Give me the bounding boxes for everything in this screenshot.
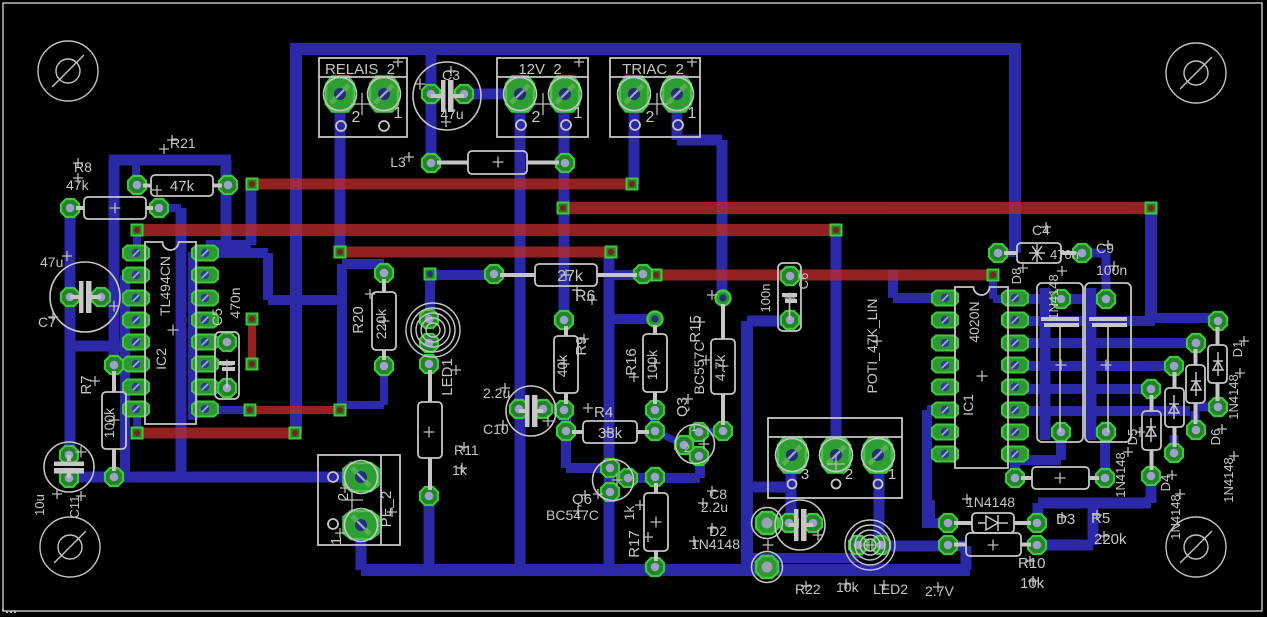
wire red band 3: [137, 224, 836, 236]
wire: [464, 89, 520, 100]
pad IC1 pin 9: [1002, 447, 1028, 462]
wire: [831, 230, 842, 455]
svg-text:10u: 10u: [32, 494, 47, 516]
svg-text:C10: C10: [483, 421, 509, 437]
capacitor C3: [413, 62, 481, 130]
pad C3.-: [455, 85, 473, 103]
diode D4 glyph: [1173, 395, 1175, 419]
wire: [998, 249, 1015, 257]
pad R6.2: [634, 265, 652, 283]
svg-text:R17: R17: [626, 530, 643, 558]
svg-text:D5: D5: [1125, 429, 1140, 446]
pad IC2 pin 5: [123, 335, 149, 350]
svg-text:470n: 470n: [227, 287, 243, 318]
svg-text:R20: R20: [350, 306, 367, 334]
svg-text:R6: R6: [575, 288, 596, 305]
pad C10.-: [534, 400, 552, 418]
wire: [874, 455, 885, 545]
LED1: [406, 303, 460, 357]
svg-text:1N4148: 1N4148: [691, 536, 740, 552]
resistor R11: [418, 402, 442, 458]
pad C7.-: [92, 288, 110, 306]
svg-text:100k: 100k: [101, 407, 117, 438]
pad R10.1: [939, 536, 957, 554]
pad R9.1: [555, 311, 573, 329]
pad R22/D2 wire pad: [756, 556, 778, 578]
wire: [1151, 313, 1218, 323]
wire: [559, 94, 570, 320]
wire: [609, 314, 655, 324]
resistor R16: [643, 334, 667, 392]
pad IC2 pin 4: [123, 313, 149, 328]
pad D3.K: [1028, 514, 1046, 532]
connector TRIAC_2: [610, 58, 700, 137]
via: [132, 225, 143, 236]
pad IC1 pin 5: [932, 380, 958, 395]
capacitor C8: [775, 500, 825, 550]
svg-text:R7: R7: [78, 375, 95, 394]
pad RELAIS_2 pin 2: [324, 77, 357, 112]
pad C10.+: [510, 400, 528, 418]
resistor R6: [535, 264, 597, 286]
svg-text:Q3: Q3: [674, 397, 691, 417]
pad C8.+: [780, 514, 798, 532]
diode D1 glyph: [1217, 352, 1219, 376]
svg-text:D6: D6: [1208, 429, 1223, 446]
pad C5.2: [218, 379, 236, 397]
pad R17.2: [646, 558, 664, 576]
pad POTI pin 3: [776, 438, 809, 473]
svg-text:C11: C11: [67, 496, 82, 519]
pad IC1 pin 1: [932, 291, 958, 306]
diode D3: [972, 513, 1014, 533]
blue bottom-layer traces: [65, 43, 1224, 576]
svg-text:1N4148: 1N4148: [1113, 452, 1128, 498]
pad R6.1: [485, 265, 503, 283]
resistor R5: [1032, 467, 1089, 489]
wire: [629, 94, 640, 184]
pad RELAIS_2 pin 1: [368, 77, 401, 112]
svg-text:R8: R8: [74, 159, 92, 175]
pad R5.2: [1096, 469, 1114, 487]
wire: [993, 295, 1015, 303]
pad R17.1: [646, 468, 664, 486]
pad IC2 pin 8: [123, 402, 149, 417]
wire: [206, 240, 251, 250]
resistor R20: [372, 292, 396, 350]
svg-text:C6: C6: [796, 273, 811, 290]
wire red band 6: [137, 428, 295, 439]
via: [245, 405, 256, 416]
wire: [263, 253, 273, 300]
svg-text:3: 3: [801, 466, 809, 483]
wire red band 5: [656, 270, 993, 281]
wire: [741, 321, 753, 565]
wire: [1015, 384, 1151, 394]
svg-text:1N4148: 1N4148: [1226, 374, 1241, 420]
svg-text:C7: C7: [38, 314, 56, 330]
pad C5.1: [218, 333, 236, 351]
svg-text:470n: 470n: [1050, 247, 1079, 262]
wire: [125, 271, 136, 279]
pad D5.K: [1142, 380, 1160, 398]
pad IC1 pin 15: [1002, 313, 1028, 328]
wire: [65, 208, 76, 455]
wire: [786, 455, 797, 523]
svg-text:100k: 100k: [644, 349, 660, 380]
svg-text:1N4148: 1N4148: [1168, 494, 1183, 540]
via: [627, 179, 638, 190]
via: [716, 291, 731, 306]
wire: [221, 160, 232, 252]
wire: [1170, 435, 1179, 453]
capacitor C4 glyph: [1029, 244, 1045, 262]
pad IC2 pin 13: [192, 313, 218, 328]
svg-text:D1: D1: [1230, 341, 1245, 358]
svg-text:2: 2: [532, 109, 541, 126]
connector POTI_47K_LIN: [768, 418, 902, 498]
wire: [337, 264, 347, 411]
svg-text:1N4148: 1N4148: [1046, 274, 1061, 320]
wire red band 4: [340, 247, 611, 258]
pad IC2 pin 14: [192, 291, 218, 306]
svg-text:1: 1: [888, 466, 896, 483]
pad R4.1: [557, 422, 575, 440]
svg-text:100n: 100n: [758, 284, 773, 313]
wire: [205, 406, 250, 414]
resistor R8: [84, 197, 146, 219]
pad IC1 pin 14: [1002, 336, 1028, 351]
pad R9.2: [555, 401, 573, 419]
wire: [609, 270, 637, 280]
svg-text:R21: R21: [170, 135, 196, 151]
wire: [246, 184, 257, 245]
connector RELAIS_2: [319, 58, 407, 137]
svg-text:C9: C9: [1096, 240, 1114, 256]
wire: [888, 270, 898, 298]
svg-text:L3: L3: [390, 154, 406, 170]
wire: [989, 275, 997, 299]
svg-text:LED1: LED1: [439, 358, 456, 396]
wire: [927, 405, 945, 415]
svg-text:C5: C5: [209, 308, 225, 326]
svg-text:2: 2: [684, 443, 690, 455]
wire: [922, 410, 932, 528]
via: [831, 225, 842, 236]
wire: [1015, 338, 1196, 348]
pad IC1 pin 16: [1002, 291, 1028, 306]
wire: [1015, 294, 1106, 304]
wire: [881, 541, 966, 552]
wire: [927, 450, 945, 460]
wire: [628, 473, 700, 483]
capacitor C5: [215, 332, 239, 399]
pad D6.K: [1187, 334, 1205, 352]
via: [558, 203, 569, 214]
pad C9.1: [1097, 290, 1115, 308]
svg-text:BC557C: BC557C: [691, 342, 707, 395]
wire: [1015, 406, 1190, 416]
pad POTI pin 2: [820, 438, 853, 473]
pad L3.1: [422, 154, 440, 172]
wire: [1037, 540, 1093, 551]
wire: [561, 404, 571, 468]
wire: [1015, 455, 1061, 465]
svg-text:LED2: LED2: [873, 581, 908, 597]
wire: [961, 546, 972, 570]
svg-text:D8: D8: [1009, 268, 1024, 285]
diode D5: [1142, 411, 1161, 450]
pad TRIAC_2 pin 2: [618, 77, 651, 112]
resistor R7: [102, 392, 126, 449]
wire: [290, 43, 1021, 55]
pad IC2 pin 12: [192, 335, 218, 350]
inductor L3: [468, 151, 527, 174]
wire: [268, 295, 342, 305]
LED2: [845, 520, 895, 570]
wire: [1088, 503, 1099, 545]
wire: [1213, 316, 1223, 321]
pad IC1 pin 10: [1002, 425, 1028, 440]
pad IC2 pin 3: [123, 291, 149, 306]
pad Q6.1: [601, 459, 619, 477]
svg-text:220k: 220k: [1094, 531, 1127, 548]
pad R5.1: [1006, 469, 1024, 487]
wire: [1015, 361, 1174, 371]
svg-text:2.2u: 2.2u: [701, 499, 728, 515]
svg-text:40k: 40k: [554, 354, 570, 378]
svg-text:D3: D3: [1056, 511, 1075, 528]
pad R21.2: [219, 176, 237, 194]
silkscreen layer: [44, 58, 1227, 570]
pad PE_2 pin 2: [344, 461, 379, 494]
wire: [927, 518, 948, 528]
pad PE_2 pin 1: [344, 509, 379, 542]
wire: [1015, 316, 1155, 326]
via: [988, 270, 999, 281]
pad R16.2: [646, 401, 664, 419]
wire: [699, 428, 723, 436]
wire: [767, 518, 789, 528]
wire: [634, 271, 656, 280]
wire: [1010, 453, 1020, 478]
wire: [1082, 249, 1106, 258]
wire: [159, 204, 181, 212]
wire: [424, 496, 435, 570]
wire: [604, 253, 615, 570]
wire: [188, 252, 198, 420]
wire red band 7: [250, 406, 340, 414]
svg-text:1k: 1k: [452, 462, 468, 478]
wire: [132, 160, 140, 186]
svg-text:R5: R5: [1091, 510, 1110, 527]
capacitor C10: [506, 386, 556, 436]
wire: [1191, 411, 1200, 430]
capacitor C6: [778, 263, 801, 331]
svg-text:TRIAC_2: TRIAC_2: [622, 61, 684, 78]
svg-text:2: 2: [646, 109, 655, 126]
pad LED1.K: [420, 334, 438, 352]
svg-text:12V_2: 12V_2: [518, 61, 561, 78]
svg-text:IC2: IC2: [153, 348, 169, 370]
pad C7.+: [61, 288, 79, 306]
pad 12V_2 pin 1: [549, 77, 582, 112]
transistor Q3: [676, 425, 715, 464]
wire: [655, 431, 684, 445]
pad POTI pin 1: [862, 438, 895, 473]
pad R7.2: [105, 468, 123, 486]
svg-text:100n: 100n: [1096, 262, 1127, 278]
pad IC1 pin 8: [932, 447, 958, 462]
via: [247, 314, 258, 325]
svg-text:1N4148: 1N4148: [966, 494, 1015, 510]
svg-text:BC547C: BC547C: [546, 507, 599, 523]
svg-text:47k: 47k: [66, 177, 90, 193]
pad Q6.2: [619, 469, 637, 487]
svg-text:1: 1: [691, 422, 697, 434]
wire: [356, 525, 367, 570]
svg-text:PE_2: PE_2: [378, 491, 395, 528]
pad IC2 pin 9: [192, 402, 218, 417]
wire: [853, 545, 863, 558]
diode D6 glyph: [1195, 372, 1197, 396]
svg-text:R15: R15: [687, 315, 704, 343]
resistor R17: [644, 493, 668, 551]
wire: [205, 248, 268, 258]
svg-text:D4: D4: [1158, 475, 1173, 492]
pad D1.A: [1209, 398, 1227, 416]
wire: [430, 270, 496, 280]
origin marker: [2, 609, 16, 613]
wire: [893, 293, 945, 303]
wire red band 2: [563, 202, 1151, 214]
wire: [109, 155, 231, 166]
wire: [672, 94, 683, 140]
capacitor C9: [1085, 283, 1131, 442]
wire: [1009, 43, 1021, 253]
pad C4.1: [989, 244, 1007, 262]
wire: [205, 248, 226, 256]
capacitor C7: [50, 262, 120, 332]
wire: [133, 409, 141, 433]
svg-text:1: 1: [394, 105, 403, 122]
resistor R21: [151, 175, 213, 196]
diode D3 glyph: [997, 515, 999, 531]
svg-text:2.7V: 2.7V: [925, 583, 954, 599]
pad IC2 pin 11: [192, 357, 218, 372]
wire: [1196, 403, 1218, 412]
via: [1146, 203, 1157, 214]
via: [648, 312, 663, 327]
pad LED1.A: [420, 310, 438, 328]
pad C8.-: [804, 514, 822, 532]
wire: [1056, 432, 1066, 460]
wire red C5 link: [248, 319, 256, 364]
wire: [380, 366, 388, 405]
svg-text:1: 1: [328, 537, 345, 545]
wire: [176, 208, 187, 477]
wire: [747, 316, 791, 327]
via: [247, 359, 258, 370]
resistor R10: [966, 533, 1021, 556]
pad R22/D2 wire pad: [756, 512, 778, 534]
pad IC1 pin 6: [932, 403, 958, 418]
svg-text:10k: 10k: [1020, 575, 1045, 592]
pad R8.1: [61, 199, 79, 217]
pad IC1 pin 12: [1002, 380, 1028, 395]
svg-text:Q6: Q6: [572, 491, 592, 508]
svg-text:1k: 1k: [621, 505, 637, 521]
pad D1.K: [1209, 312, 1227, 330]
svg-text:R22: R22: [795, 581, 821, 597]
wire red band 1: [252, 179, 632, 190]
svg-text:C4: C4: [1032, 222, 1050, 238]
pad C11.-: [60, 469, 78, 487]
red top-layer traces: [137, 179, 1151, 439]
svg-text:R4: R4: [594, 404, 613, 421]
pad R7.1: [105, 356, 123, 374]
wire: [426, 49, 437, 163]
svg-text:47u: 47u: [440, 106, 463, 122]
pad R20.1: [375, 264, 393, 282]
mounting hole top-right: [1166, 43, 1226, 103]
resistor R9: [554, 336, 578, 393]
wire: [380, 264, 388, 273]
pad IC1 pin 11: [1002, 403, 1028, 418]
wire: [342, 259, 384, 269]
op-amp IC2 outline: [145, 242, 196, 424]
pad R8.2: [150, 199, 168, 217]
wire: [1040, 288, 1051, 440]
pad Q3.2: [675, 436, 693, 454]
pad R21.1: [128, 176, 146, 194]
svg-text:10k: 10k: [836, 579, 860, 595]
svg-text:R10: R10: [1018, 555, 1046, 572]
svg-text:2: 2: [335, 493, 352, 501]
pad R11.2: [420, 487, 438, 505]
svg-text:TL494CN: TL494CN: [157, 256, 173, 316]
via: [335, 247, 346, 258]
pad D8.1: [1052, 290, 1070, 308]
resistor R15: [711, 339, 735, 394]
svg-text:2: 2: [352, 109, 361, 126]
wire: [695, 454, 705, 478]
pad LED2.K: [872, 536, 890, 554]
mounting hole top-left: [38, 41, 98, 101]
svg-text:IC1: IC1: [960, 394, 976, 416]
pad R10.2: [1028, 536, 1046, 554]
via: [247, 179, 258, 190]
wire: [747, 553, 858, 563]
pad C3.+: [422, 85, 440, 103]
wire: [120, 275, 130, 477]
pad IC2 pin 7: [123, 380, 149, 395]
pad Q3.3: [690, 447, 708, 465]
pad C4.2: [1073, 244, 1091, 262]
pad IC1 pin 2: [932, 313, 958, 328]
svg-text:POTI_47K_LIN: POTI_47K_LIN: [864, 299, 880, 394]
svg-text:2.2u: 2.2u: [483, 385, 510, 401]
wire: [925, 500, 935, 523]
wire: [717, 140, 728, 298]
svg-text:220k: 220k: [373, 308, 389, 339]
via: [132, 428, 143, 439]
wire: [342, 401, 384, 409]
pad D8.2: [1052, 423, 1070, 441]
pad IC2 pin 1: [123, 246, 149, 261]
svg-text:1N4148: 1N4148: [1221, 457, 1236, 503]
pad IC1 pin 13: [1002, 358, 1028, 373]
